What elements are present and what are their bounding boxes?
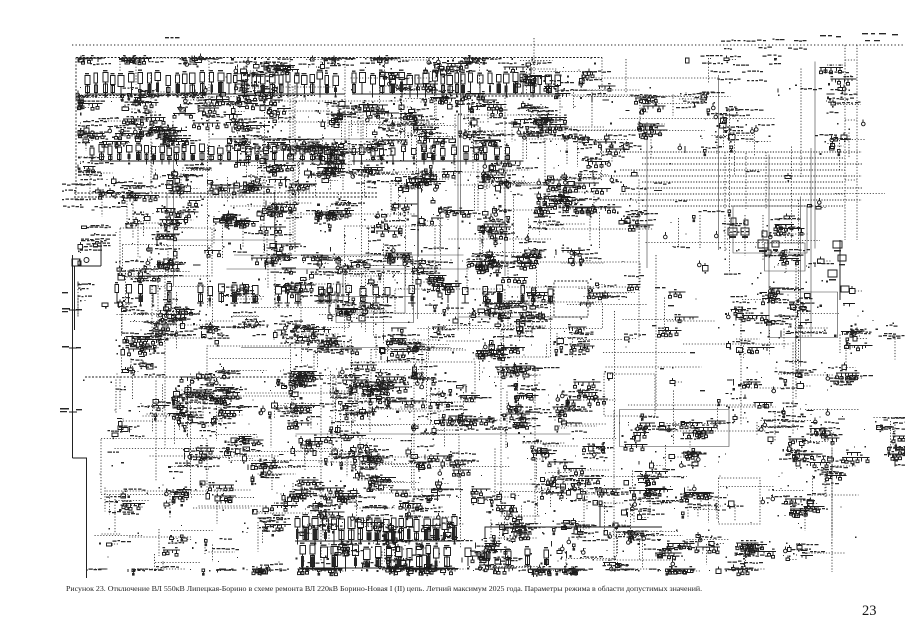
load node r9c15: [757, 360, 835, 393]
feeder group r3c9: [458, 114, 521, 171]
node: bay frame F4: [620, 410, 730, 447]
node: bay frame F18: [604, 374, 655, 416]
wire: 500kV tie line T3: [620, 169, 845, 171]
generator bay r12c8: [389, 477, 463, 520]
busbar: Borino 110kV bus row 1: [295, 514, 460, 545]
feeder group r8c4: [194, 311, 269, 347]
substation bus r6c12: [619, 261, 645, 300]
generator bay r14c13: [638, 559, 701, 576]
transformer bay r11c10: [508, 432, 580, 481]
load node r1c9: [458, 55, 502, 88]
wire w57: [596, 77, 719, 79]
wire: trunk vertical V9: [460, 62, 462, 215]
wire w47: [157, 276, 159, 342]
generator bay r13c6: [297, 506, 363, 560]
wire: mid dashed feeder: [85, 376, 308, 378]
wire w42: [489, 537, 538, 539]
feeder group r5c7: [367, 202, 418, 257]
wire w39: [229, 460, 324, 462]
wire w32: [298, 162, 300, 205]
generator bay r9c10: [489, 355, 560, 404]
wire w12: [729, 111, 731, 274]
substation bus r8c10: [493, 302, 553, 343]
substation bus r4c5: [241, 156, 318, 206]
transformer bay r6c7: [344, 232, 413, 281]
feeder group r3c11: [545, 127, 629, 167]
node: dotted frame center: [355, 362, 475, 402]
wire: trunk vertical V0: [800, 197, 802, 367]
wire w13: [351, 77, 437, 79]
wire w5: [413, 339, 415, 517]
wire: 500kV tie line T8: [600, 199, 862, 201]
transformer bay r11c4: [220, 434, 276, 464]
generator bay r12c3: [159, 485, 197, 520]
wire w22: [351, 424, 465, 426]
substation bus r5c14: [715, 210, 757, 251]
busbar: 220kV bus section A: [90, 142, 345, 165]
value label: boundary MW marks: [60, 292, 82, 412]
wire w28: [263, 142, 265, 257]
transformer bay r5c6: [301, 189, 368, 233]
wire: boundary ticks: [69, 310, 77, 412]
value label: left margin feeder names: [62, 184, 96, 208]
transformer bay r9c11: [549, 379, 609, 406]
wire w34: [253, 307, 327, 309]
wire: main frame left dashed border: [75, 58, 77, 196]
feeder group r6c5: [251, 234, 306, 291]
busbar: Borino 110kV bus row 3: [465, 546, 549, 570]
wire w14: [795, 263, 797, 400]
wire: 500kV tie line T0: [600, 151, 862, 153]
value label: idle bay annotations in white zone: [652, 287, 752, 391]
node: bay frame F12: [301, 284, 350, 328]
wire w81: [274, 86, 336, 88]
load node r6c1: [78, 238, 111, 265]
substation bus r1c3: [180, 54, 223, 68]
substation bus r14c3: [155, 547, 201, 571]
node: bay frame F13: [152, 287, 213, 339]
wire: 500kV tie line T6: [642, 187, 862, 189]
transformer bay r9c8: [397, 355, 457, 425]
load node r13c14: [726, 522, 795, 576]
feeder group r3c16: [815, 129, 865, 172]
node: dotted frame around 220kV yard: [508, 262, 640, 287]
load node r1c13: [686, 58, 690, 63]
feeder group r10c3: [141, 394, 215, 446]
busbar: Lipetsk 110kV bus row: [359, 283, 554, 307]
substation bus r3c2: [99, 116, 172, 152]
substation bus r10c11: [548, 385, 616, 433]
feeder group r13c2: [95, 528, 144, 558]
transformer bay r6c4: [223, 227, 247, 253]
wire w50: [683, 343, 791, 345]
node: bay frame F6: [371, 350, 427, 410]
transformer bay r6c14: [698, 247, 741, 275]
substation bus r1c4: [226, 58, 278, 90]
wire: tie drop D0: [699, 215, 701, 248]
load node r4c13: [636, 183, 671, 203]
wire w21: [292, 87, 294, 243]
wire w68: [504, 92, 506, 239]
wire w82: [418, 328, 526, 330]
transformer bay r6c13: [664, 232, 691, 248]
transformer bay r12c9: [449, 475, 542, 514]
wire w1: [570, 476, 687, 478]
transformer: boundary tap: [72, 258, 89, 267]
generator bay r6c2: [116, 243, 191, 303]
busbar: Lipetsk 220kV bus row: [114, 281, 353, 307]
wire w69: [340, 171, 499, 173]
generator bay r9c4: [180, 364, 267, 418]
wire: tie drop D2: [744, 215, 746, 256]
wire w90: [215, 434, 258, 436]
load node r10c13: [641, 418, 735, 448]
load node r1c1: [78, 55, 105, 65]
transformer bay r13c12: [593, 511, 683, 569]
generator bay r13c7: [365, 522, 417, 568]
transformer bay r13c3: [159, 525, 213, 556]
generator bay r5c2: [92, 202, 184, 257]
feeder group r7c11: [579, 279, 637, 308]
feeder group r12c7: [339, 461, 420, 535]
wire: 500kV tie line T2: [642, 163, 862, 165]
wire: trunk vertical V10: [814, 62, 816, 249]
wire w15: [150, 455, 279, 457]
feeder group r11c13: [655, 445, 719, 478]
node: bay frame F14: [380, 86, 435, 125]
wire w79: [440, 213, 442, 270]
wire w66: [199, 505, 267, 507]
load node r11c11: [545, 438, 618, 500]
feeder group r4c14: [746, 171, 760, 173]
generator bay r3c1: [78, 113, 108, 152]
transformer bay r8c16: [824, 320, 874, 378]
generator bay r14c8: [375, 553, 466, 576]
load node r12c5: [252, 477, 345, 522]
page number: [862, 603, 877, 620]
load node r5c15: [767, 214, 808, 240]
generator bay r11c2: [100, 433, 145, 475]
wire w77: [667, 423, 730, 425]
substation bus r13c1: [0, 0, 1, 1]
transformer bay r4c10: [492, 167, 594, 218]
wire w65: [245, 392, 348, 394]
transformer bay r2c7: [353, 68, 457, 151]
wire w88: [687, 539, 730, 541]
wire w64: [567, 304, 647, 306]
wire: trunk horizontal H3: [210, 138, 379, 140]
wire: trunk vertical V6: [504, 156, 506, 276]
wire w38: [294, 83, 296, 254]
wire w45: [150, 72, 152, 192]
generator bay r3c17: [848, 120, 866, 141]
substation bus r14c2: [128, 569, 185, 576]
transformer bay r4c2: [93, 177, 160, 230]
substation bus r5c3: [128, 195, 213, 252]
transformer bay r11c3: [147, 445, 234, 494]
substation bus r10c9: [451, 415, 525, 449]
load node r4c1: [78, 132, 114, 202]
wire w19: [460, 462, 462, 548]
busbar: Borino 110kV bus row 2: [300, 543, 455, 572]
load node r5c5: [222, 197, 313, 250]
transformer bay r9c3: [163, 375, 237, 432]
substation bus r8c3: [134, 314, 207, 353]
generator bay r14c5: [243, 564, 290, 576]
wire: top dotted separator line: [72, 44, 903, 46]
substation bus r4c15: [785, 173, 791, 182]
transformer: tie substation knot B: [758, 231, 779, 248]
wire w36: [740, 310, 742, 426]
feeder group r1c15: [774, 58, 777, 61]
feeder group r10c16: [797, 404, 859, 452]
wire: trunk vertical V1: [768, 155, 770, 289]
wire: trunk horizontal H5: [227, 268, 470, 270]
wire w40: [666, 430, 767, 432]
wire: trunk vertical V4: [418, 168, 420, 257]
transformer bay r7c7: [352, 271, 403, 337]
wire w17: [449, 238, 552, 240]
wire w27: [673, 391, 675, 445]
wire w60: [405, 198, 407, 287]
substation bus r3c4: [212, 116, 281, 177]
feeder group r8c13: [658, 314, 715, 337]
node: repair-zone dashed rectangle: [554, 281, 588, 317]
load node r13c5: [242, 518, 291, 552]
wire w25: [107, 490, 231, 492]
wire: trunk horizontal H0: [234, 254, 464, 256]
feeder group: right corridor chain: [828, 240, 849, 300]
load node r8c9: [473, 336, 526, 382]
transformer bay r11c14: [719, 454, 727, 477]
transformer bay r10c8: [401, 393, 473, 448]
wire w91: [392, 466, 511, 468]
wire w87: [606, 366, 702, 368]
wire: 500kV tie line T5: [642, 181, 845, 183]
transformer bay r1c7: [351, 55, 427, 77]
generator bay r13c9: [439, 536, 523, 566]
wire w48: [365, 265, 367, 333]
feeder group r10c7: [362, 384, 446, 434]
load node r3c13: [670, 131, 720, 165]
node: bay frame F1: [345, 226, 436, 274]
node: bay frame F5: [395, 289, 505, 314]
wire w33: [289, 180, 291, 256]
generator bay r4c3: [151, 158, 212, 212]
wire w11: [791, 147, 793, 245]
transformer bay r10c14: [718, 384, 776, 431]
generator bay r1c14: [709, 56, 738, 84]
node: bay frame F0: [504, 301, 551, 357]
transformer bay r6c6: [280, 243, 374, 295]
substation bus r7c6: [301, 280, 389, 333]
substation bus r14c12: [576, 559, 657, 572]
wire: tie drop D3: [762, 215, 764, 260]
wire: left boundary bracket: [73, 240, 102, 578]
feeder group r7c4: [210, 279, 265, 307]
transformer: tie substation knot A: [728, 218, 749, 235]
node: bay frame F3: [343, 266, 405, 314]
feeder group r11c9: [450, 428, 509, 459]
busbar: 500kV north bus section B: [352, 70, 561, 98]
load node r7c10: [507, 286, 550, 338]
wire w49: [412, 259, 414, 310]
feeder group r1c16: [820, 65, 857, 94]
substation bus r5c9: [462, 198, 542, 266]
load node r7c9: [458, 286, 542, 334]
wire: bus A dashed underline: [85, 95, 560, 98]
transformer bay r14c14: [709, 565, 766, 574]
wire w52: [831, 450, 833, 573]
feeder group r8c8: [391, 317, 483, 374]
load node r4c9: [468, 161, 531, 219]
load node r8c5: [267, 315, 339, 363]
wire w70: [646, 242, 805, 244]
generator bay r7c14: [696, 296, 789, 329]
wire w89: [400, 82, 402, 145]
wire: trunk horizontal H2: [458, 316, 588, 318]
wire w56: [620, 118, 775, 120]
wire: tie drop D1: [724, 215, 726, 252]
wire w24: [548, 178, 601, 180]
load node r2c15: [778, 85, 822, 97]
wire: trunk vertical V3: [417, 175, 419, 320]
wire w18: [603, 352, 686, 354]
feeder group r12c2: [101, 488, 150, 533]
feeder group r2c3: [145, 86, 229, 136]
node: bay frame F20: [123, 245, 169, 277]
wire w53: [800, 69, 802, 178]
feeder group r5c16: [808, 198, 827, 209]
substation bus r2c6: [281, 88, 367, 143]
load node r12c16: [778, 485, 859, 517]
feeder group r12c13: [667, 466, 724, 537]
generator bay r12c11: [531, 475, 629, 536]
feeder group r13c11: [541, 510, 609, 568]
feeder group r2c1: [76, 87, 130, 122]
value label: top-right corner codes: [820, 33, 898, 41]
substation bus r12c12: [622, 478, 689, 535]
substation bus r2c9: [442, 80, 531, 134]
node: bay frame F9: [508, 302, 603, 329]
substation bus r3c5: [253, 121, 343, 179]
wire w44: [331, 418, 333, 467]
feeder group r8c7: [374, 322, 449, 363]
load node r2c10: [514, 99, 564, 129]
substation bus r11c16: [806, 429, 870, 498]
wire: 500kV tie line T1: [642, 157, 845, 159]
load node r9c9: [441, 354, 541, 418]
generator bay r5c1: [80, 204, 116, 242]
node: bay frame F11: [336, 297, 414, 323]
substation bus r14c4: [190, 569, 237, 576]
generator bay r1c2: [85, 55, 179, 85]
substation bus r4c12: [608, 151, 647, 192]
wire w59: [574, 96, 731, 98]
wire w4: [664, 298, 666, 339]
feeder group r14c1: [87, 569, 136, 572]
substation bus r10c4: [187, 395, 259, 442]
substation bus r9c5: [262, 355, 340, 414]
node: bay frame F2: [719, 478, 761, 524]
wire w6: [155, 381, 157, 483]
wire w29: [190, 374, 192, 496]
load node r2c16: [826, 85, 861, 125]
substation bus r9c6: [320, 362, 387, 411]
transformer bay r6c3: [136, 248, 221, 281]
transformer bay r3c10: [506, 113, 604, 161]
wire: trunk vertical V8: [457, 116, 459, 331]
value label: interchange power table top-right: [701, 39, 808, 82]
generator bay r2c4: [206, 74, 277, 125]
substation bus r8c6: [302, 320, 362, 382]
feeder group r9c14: [727, 367, 789, 395]
transformer bay r4c4: [188, 170, 274, 218]
wire w71: [571, 130, 705, 132]
feeder group r10c10: [480, 392, 552, 430]
feeder group r5c12: [614, 198, 658, 231]
feeder group r5c11: [552, 190, 621, 250]
wire w73: [655, 255, 657, 410]
wire w0: [597, 559, 677, 561]
generator bay r7c12: [626, 297, 628, 299]
node: bay frame F10: [101, 439, 207, 495]
wire: tie bundle vertical crossings: [725, 152, 766, 210]
generator bay r2c8: [378, 60, 468, 157]
wire w62: [351, 337, 353, 441]
node: dotted frame mid-left: [120, 228, 212, 276]
generator bay r7c16: [822, 280, 864, 317]
wire w51: [292, 213, 417, 215]
node: bay frame F17: [765, 243, 806, 271]
feeder group r7c15: [752, 272, 840, 321]
transformer bay r14c10: [521, 565, 584, 578]
wire w74: [319, 314, 367, 316]
wire w37: [500, 331, 502, 500]
generator bay r10c5: [240, 387, 321, 448]
feeder group r9c12: [605, 371, 613, 381]
substation bus r7c2: [102, 297, 173, 337]
load node r13c4: [192, 538, 239, 562]
feeder group r11c7: [341, 439, 428, 499]
wire w43: [176, 292, 178, 349]
substation bus r8c12: [624, 334, 646, 348]
wire: trunk vertical V7: [173, 150, 175, 287]
substation bus r9c13: [670, 367, 683, 386]
substation bus r7c1: [78, 282, 95, 318]
wire w78: [628, 404, 755, 406]
generator bay r7c13: [669, 289, 686, 298]
wire: trunk vertical V5: [718, 75, 720, 250]
generator bay r11c15: [768, 436, 831, 469]
node: top-right tie-line dotted corridor: [845, 45, 857, 240]
substation bus r11c8: [394, 448, 479, 477]
generator bay r3c14: [700, 120, 754, 175]
feeder group r9c2: [83, 351, 165, 413]
substation bus r11c17: [884, 431, 905, 467]
wire: vertical dashed separators in top band: [209, 38, 602, 160]
substation bus r2c2: [111, 87, 190, 127]
wire w58: [534, 371, 536, 524]
value label: sheet code top center: [165, 37, 180, 38]
feeder group r8c15: [756, 294, 829, 357]
load node r3c12: [593, 122, 668, 182]
generator bay r8c2: [116, 333, 166, 375]
node: bay frame F8: [207, 346, 291, 396]
load node r2c12: [612, 87, 696, 114]
load node r11c5: [248, 445, 323, 497]
substation bus r2c11: [544, 71, 640, 126]
